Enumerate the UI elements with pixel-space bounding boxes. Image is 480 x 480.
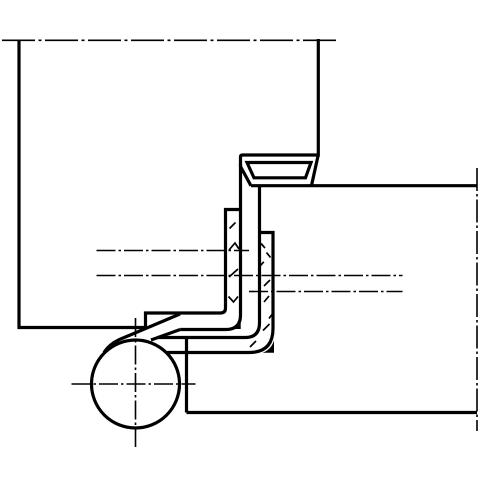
frame left face vertical (185, 337, 188, 413)
hatch leaf1 vertical limb (229, 223, 240, 303)
screw centerline C (249, 291, 403, 293)
door tube profile right face (317, 39, 320, 157)
door leaf profile edge (bends into strap) (180, 164, 240, 330)
strap tangent lower (151, 330, 180, 341)
frame bottom edge (187, 411, 478, 414)
hinge leaf 1 corner wedge (233, 318, 241, 329)
hinge leaf 1 (door side) outline (146, 210, 241, 328)
barrel centerline vertical (135, 318, 137, 447)
frame top edge (251, 184, 477, 187)
strap outer surface arc + tangent upper (104, 314, 180, 353)
door panel bottom edge (18, 326, 146, 329)
hinge barrel (92, 340, 180, 428)
hinge leaf 2 corner wedge (263, 341, 275, 353)
hatch leaf2 vertical limb (250, 244, 274, 348)
screw centerline B (97, 275, 403, 277)
door panel left edge (17, 40, 20, 329)
profile web under bead (158, 186, 260, 338)
glazing bead right slant (312, 156, 319, 186)
glazing gasket inner trapezoid (247, 163, 311, 178)
glazing bead outer profile (241, 155, 319, 186)
hinge leaf 2 (frame side) outline (167, 233, 273, 353)
barrel centerline horizontal (72, 383, 196, 385)
centerline top (section break line) (2, 39, 337, 41)
screw centerline A (97, 250, 250, 252)
frame centerline right (476, 168, 478, 431)
